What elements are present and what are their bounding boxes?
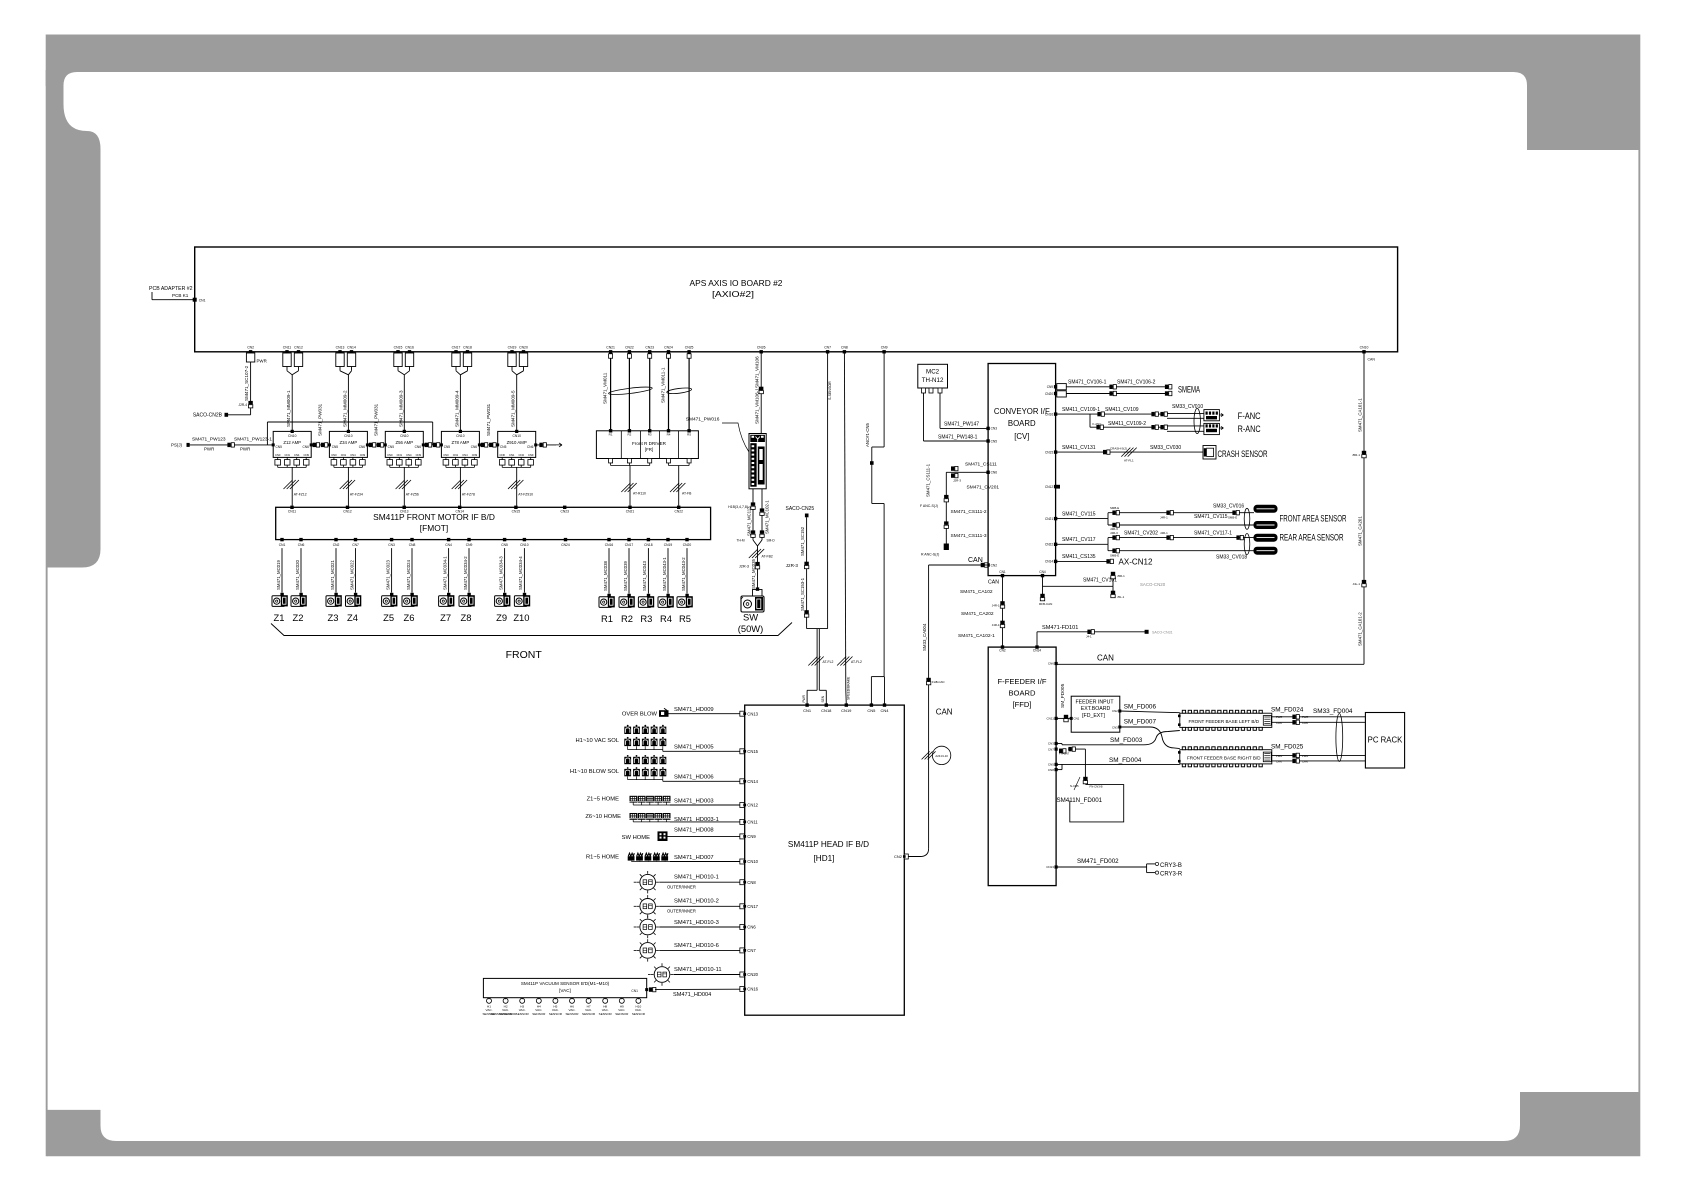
svg-text:SM471_MC024: SM471_MC024: [406, 560, 411, 590]
svg-text:H1B(3,4,7,8): H1B(3,4,7,8): [728, 505, 748, 509]
wire SM471_HD008 to CN9: [667, 835, 740, 837]
svg-text:CN10: CN10: [512, 434, 521, 438]
svg-text:CN12: CN12: [1045, 485, 1053, 489]
svg-text:CN1: CN1: [341, 453, 347, 457]
wire CN8 down to HD1 CN19: [844, 352, 845, 690]
svg-text:SENSOR: SENSOR: [516, 1012, 530, 1016]
svg-text:CN4: CN4: [445, 543, 452, 547]
svg-text:Z7: Z7: [440, 612, 451, 623]
svg-text:AT-R110: AT-R110: [633, 492, 646, 496]
svg-text:SM471_CA101-2: SM471_CA101-2: [1357, 612, 1362, 646]
svg-text:CN16: CN16: [747, 987, 758, 992]
cable bundle symbol front area: [1244, 508, 1250, 529]
svg-text:SM471_MC021: SM471_MC021: [330, 560, 335, 590]
svg-text:ANC#1-CN5: ANC#1-CN5: [865, 423, 870, 447]
HD1 top edge pins: [805, 703, 808, 706]
svg-text:CN12: CN12: [294, 346, 303, 350]
svg-text:SM471_MC043: SM471_MC043: [642, 561, 647, 591]
svg-text:Z10: Z10: [513, 612, 529, 623]
svg-text:CN0: CN0: [500, 453, 506, 457]
svg-text:CN1: CN1: [999, 570, 1006, 574]
svg-text:CN4: CN4: [462, 453, 468, 457]
svg-text:SM471_HD010-6: SM471_HD010-6: [674, 943, 719, 949]
connector block R-ANC: [1204, 423, 1220, 434]
svg-text:Z34 AMP: Z34 AMP: [340, 440, 358, 445]
wire CN7 down: [827, 352, 829, 629]
wire PCB K1 to CN1: [151, 292, 153, 300]
svg-text:CN2: CN2: [1112, 709, 1118, 713]
svg-text:PWR: PWR: [1302, 715, 1308, 719]
wire SM471_MC034-3 to motor Z9: [504, 548, 506, 593]
svg-text:CN9: CN9: [360, 453, 366, 457]
svg-text:CN7: CN7: [1048, 747, 1054, 751]
wire SM471_MC023 to motor Z5: [391, 548, 393, 593]
svg-text:SM471_CS111-2: SM471_CS111-2: [951, 509, 987, 515]
svg-text:CN12: CN12: [343, 510, 352, 514]
board APS AXIS IO BOARD #2 [AXIO#2]: [195, 247, 1398, 352]
svg-text:CN4: CN4: [294, 453, 300, 457]
svg-text:FH-CN7: FH-CN7: [1059, 752, 1070, 756]
svg-text:AT-FL2: AT-FL2: [851, 660, 862, 664]
svg-text:CN18: CN18: [821, 708, 832, 713]
svg-text:R2: R2: [621, 613, 633, 624]
connector J2R-3 on CS111 chain: [944, 495, 948, 498]
svg-text:[FMOT]: [FMOT]: [420, 523, 448, 533]
svg-text:R3: R3: [648, 433, 652, 437]
sensor block CRASH SENSOR: [1203, 446, 1216, 460]
svg-text:CN25: CN25: [685, 346, 694, 350]
svg-text:FRONT FEEDER BASE LEFT B/D: FRONT FEEDER BASE LEFT B/D: [1189, 719, 1260, 724]
svg-text:SENSOR: SENSOR: [532, 1012, 546, 1016]
driver box Z34 AMP: [329, 431, 367, 457]
lamp SM471_HD010-3: [640, 919, 656, 935]
svg-text:CN16: CN16: [1045, 412, 1053, 416]
svg-text:CN11: CN11: [283, 346, 292, 350]
svg-text:SM411P VACUUM SENSOR B'D(M1~M1: SM411P VACUUM SENSOR B'D(M1~M10): [521, 981, 610, 986]
svg-text:SM471_HD004: SM471_HD004: [673, 992, 711, 998]
svg-text:SM411P FRONT MOTOR IF B/D: SM411P FRONT MOTOR IF B/D: [373, 512, 495, 522]
svg-text:SM471_HD005: SM471_HD005: [674, 744, 714, 750]
svg-text:CN14: CN14: [747, 779, 758, 784]
svg-text:SACO-CN20: SACO-CN20: [1140, 582, 1166, 587]
svg-text:SM471_CV106-2: SM471_CV106-2: [1117, 379, 1156, 385]
wire CN9 down to HD1 CN5/CN4 with ANC#1-CN5 jog: [883, 352, 885, 447]
pin stub CN12: [1056, 485, 1060, 489]
svg-text:CAN: CAN: [1302, 760, 1308, 764]
svg-text:CN6: CN6: [1048, 662, 1054, 666]
svg-text:PCB K1: PCB K1: [172, 293, 189, 298]
svg-text:CAN: CAN: [1097, 654, 1114, 663]
svg-text:CN4: CN4: [1039, 570, 1046, 574]
wire SM471_MC043-2 to motor R5: [686, 548, 688, 594]
svg-text:CN9: CN9: [466, 543, 473, 547]
wire Z34 AMP to FMOT CN12 with hatch AT-FZ34: [347, 467, 349, 505]
svg-text:J4R-1: J4R-1: [992, 623, 1000, 627]
board SM411N_FD001 outline: [1070, 785, 1124, 822]
svg-text:SM471_SC107-2: SM471_SC107-2: [244, 365, 249, 401]
lamp SM471_HD010-1: [640, 874, 656, 890]
sensor bar front area 2: [1254, 522, 1277, 529]
svg-text:SM471_MM009-3: SM471_MM009-3: [398, 390, 403, 427]
svg-text:SM471_CV115: SM471_CV115: [1062, 511, 1096, 517]
svg-text:PWR: PWR: [1276, 715, 1282, 719]
motor Z9: [495, 596, 508, 607]
svg-text:CN8: CN8: [841, 346, 848, 350]
svg-text:CN5: CN5: [444, 445, 451, 449]
sensor bar rear area 2: [1254, 547, 1277, 554]
svg-text:CAN: CAN: [1302, 721, 1308, 725]
svg-text:CN17: CN17: [625, 543, 634, 547]
svg-text:CN6: CN6: [359, 445, 366, 449]
wire SM471_HD006 to CN14: [663, 780, 740, 782]
svg-text:J5R-1: J5R-1: [1352, 453, 1360, 457]
svg-text:PC RACK: PC RACK: [1368, 736, 1403, 745]
svg-text:CN9: CN9: [304, 453, 310, 457]
svg-text:Z6: Z6: [404, 612, 415, 623]
svg-text:SM471_CA102: SM471_CA102: [960, 589, 993, 595]
svg-text:J4L-1: J4L-1: [1352, 582, 1360, 586]
svg-text:CN1: CN1: [285, 453, 291, 457]
svg-text:CN6: CN6: [471, 445, 478, 449]
board FEEDER INPUT EXT.BOARD [FD_EXT]: [1071, 696, 1120, 732]
svg-text:F ANC-S(J): F ANC-S(J): [920, 504, 938, 508]
svg-text:[FR]: [FR]: [645, 447, 653, 452]
wire SM471_CV101 from CV CN4: [1043, 585, 1114, 587]
svg-text:PWR: PWR: [257, 359, 267, 364]
svg-text:CN3: CN3: [1048, 742, 1054, 746]
svg-text:CN24: CN24: [561, 543, 570, 547]
wire SM471_MC034-2 to motor Z8: [468, 548, 470, 593]
svg-text:AT-FZ12: AT-FZ12: [294, 493, 307, 497]
svg-text:CN1: CN1: [803, 708, 812, 713]
svg-text:CN22: CN22: [674, 510, 683, 514]
wire SM471_HD010-11 to CN20: [674, 974, 740, 976]
svg-text:CN22: CN22: [1045, 543, 1053, 547]
svg-text:CN20: CN20: [1045, 392, 1053, 396]
svg-text:CAN: CAN: [1276, 760, 1282, 764]
svg-text:SM471_PW147: SM471_PW147: [944, 422, 979, 428]
svg-text:Z1~5 HOME: Z1~5 HOME: [587, 797, 620, 803]
svg-text:SM471_HD008: SM471_HD008: [674, 827, 714, 833]
svg-text:SM471_HD006: SM471_HD006: [674, 774, 714, 780]
wire SM_FD004 from FFD CN5/CN8: [1056, 763, 1180, 765]
svg-text:CN15: CN15: [512, 510, 521, 514]
wire SM471_MC039 to motor R2: [628, 548, 630, 594]
board F-FEEDER I/F BOARD [FFD]: [988, 647, 1056, 886]
svg-text:CN17: CN17: [747, 904, 758, 909]
svg-text:CN20: CN20: [683, 543, 692, 547]
connector on CN26 wire: [759, 387, 763, 390]
svg-text:SM471_CV117-1: SM471_CV117-1: [1194, 531, 1232, 537]
lamp SM471_HD010-11: [654, 967, 670, 983]
svg-text:SM471_CV115: SM471_CV115: [1194, 514, 1228, 520]
wire SM471_CS111 chain into CN6: [946, 471, 988, 473]
svg-text:R5: R5: [687, 433, 691, 437]
svg-text:SM411_CV131: SM411_CV131: [1062, 445, 1096, 451]
svg-text:AT-FB2: AT-FB2: [762, 555, 773, 559]
svg-text:CN8: CN8: [1048, 768, 1054, 772]
wires below SW driver: [752, 489, 754, 540]
svg-text:SM471_MM009-5: SM471_MM009-5: [511, 390, 516, 427]
sensor bar rear area 1: [1254, 534, 1277, 541]
svg-text:J4R-1: J4R-1: [992, 603, 1000, 607]
svg-text:PWR: PWR: [240, 447, 250, 452]
wire Z910 AMP to FMOT CN15 with hatch AT-FZ910: [516, 467, 518, 505]
svg-text:CN18: CN18: [644, 543, 653, 547]
svg-text:SM471_PW031: SM471_PW031: [374, 403, 379, 436]
svg-text:SENSOR: SENSOR: [565, 1012, 579, 1016]
vacuum sensor pins H1-H10: [488, 998, 490, 1000]
svg-text:Z4: Z4: [347, 612, 358, 623]
svg-text:Z56 AMP: Z56 AMP: [395, 440, 413, 445]
wire SM471_PW147 to CV CN3: [939, 393, 941, 428]
motor R1: [599, 597, 612, 608]
svg-text:CN6: CN6: [527, 445, 534, 449]
svg-text:CN16: CN16: [605, 543, 614, 547]
svg-text:J4R-3: J4R-3: [1110, 531, 1118, 535]
connector stubs CN17/CN18 and wire SM471_MM009-4 to Z78 AMP: [452, 353, 460, 367]
svg-text:SPEED/BRAKE: SPEED/BRAKE: [847, 676, 851, 700]
svg-text:CN14: CN14: [455, 510, 464, 514]
svg-text:SM471_CA202: SM471_CA202: [961, 611, 994, 617]
svg-text:(50W): (50W): [738, 623, 764, 634]
svg-text:CN10: CN10: [1360, 346, 1369, 350]
svg-text:Z5: Z5: [383, 612, 394, 623]
svg-text:SM411P HEAD IF B/D: SM411P HEAD IF B/D: [788, 840, 869, 849]
svg-text:SM471_MC023: SM471_MC023: [385, 560, 390, 590]
svg-text:CN0: CN0: [387, 453, 393, 457]
HD1 right edge pin CN2: [904, 854, 908, 859]
svg-text:CN13: CN13: [747, 711, 758, 716]
HD1 left edge pins: [740, 711, 745, 716]
page frame top bar and top-right block (gray): [46, 35, 1641, 151]
wire SM471_MC019 to motor Z1: [281, 548, 283, 593]
svg-text:AT-FZ78: AT-FZ78: [462, 493, 475, 497]
svg-text:FRONT AREA SENSOR: FRONT AREA SENSOR: [1280, 514, 1347, 524]
svg-text:F-ANC: F-ANC: [1238, 411, 1261, 421]
svg-text:CN12: CN12: [747, 803, 758, 808]
svg-text:SM471_MC043-2: SM471_MC043-2: [681, 557, 686, 591]
svg-text:SM471_MM009-2: SM471_MM009-2: [342, 390, 347, 427]
svg-text:SM471_HD009: SM471_HD009: [674, 707, 714, 713]
page frame right thin line: [1638, 150, 1640, 1092]
svg-text:SM_FD006: SM_FD006: [1124, 704, 1157, 711]
svg-text:CN13: CN13: [336, 346, 345, 350]
svg-text:CN1: CN1: [279, 543, 286, 547]
wire FFD CN7 branch down to FD001: [1068, 748, 1085, 750]
wire CN26 SM471_VM106: [760, 352, 762, 434]
svg-text:Z78 AMP: Z78 AMP: [452, 440, 470, 445]
svg-text:[HD1]: [HD1]: [814, 854, 835, 863]
motor R3: [638, 597, 651, 608]
svg-text:J4-1: J4-1: [1086, 634, 1092, 638]
svg-text:CN13: CN13: [400, 510, 409, 514]
svg-text:SM471_HD010-2: SM471_HD010-2: [674, 899, 719, 905]
svg-text:J2R-3: J2R-3: [786, 563, 799, 568]
connector J4L-1 on CAN drop: [1362, 580, 1366, 583]
svg-text:SM471_CS111-1: SM471_CS111-1: [926, 463, 931, 497]
svg-text:CN17: CN17: [452, 346, 461, 350]
FMOT bottom edge pins: [280, 538, 283, 541]
svg-text:SM33_CA004: SM33_CA004: [922, 623, 927, 651]
svg-text:CN1: CN1: [509, 453, 515, 457]
svg-text:SM33_CV030: SM33_CV030: [1150, 445, 1181, 451]
circled hatch A2F-FL10: [922, 751, 930, 759]
svg-text:CN1: CN1: [397, 453, 403, 457]
svg-text:SM471_MC043-1: SM471_MC043-1: [662, 557, 667, 591]
svg-text:CN2: CN2: [991, 563, 998, 567]
svg-text:SM471_HD010-3: SM471_HD010-3: [674, 920, 719, 926]
cable bundle symbol ANC: [1194, 408, 1200, 433]
svg-text:CN3: CN3: [991, 427, 998, 431]
svg-text:J2R-4: J2R-4: [238, 403, 247, 407]
cable bundle symbol rear area: [1244, 534, 1250, 555]
wire SM471_CV117 to rear area sensor: [1056, 543, 1108, 545]
svg-text:Z9: Z9: [496, 612, 507, 623]
svg-text:SM471_MC102-1: SM471_MC102-1: [765, 500, 770, 534]
svg-text:SM_FD025: SM_FD025: [1271, 743, 1304, 750]
svg-text:H1~10 BLOW SOL: H1~10 BLOW SOL: [570, 769, 620, 775]
wire SM471_HD005 to CN15: [663, 750, 740, 752]
wire SM471_HD010-6 to CN7: [659, 949, 740, 951]
page frame bottom bar with corner blocks (gray): [47, 1092, 1641, 1156]
svg-text:SM471_MC020: SM471_MC020: [295, 560, 300, 590]
svg-text:CN6: CN6: [991, 471, 998, 475]
FMOT top edge pins: [290, 506, 293, 509]
svg-text:Z8: Z8: [461, 612, 472, 623]
svg-text:CN4: CN4: [350, 453, 356, 457]
cable bundle symbol over CN24-CN25: [667, 387, 692, 395]
svg-text:CAN: CAN: [1368, 358, 1376, 362]
svg-text:CRASH SENSOR: CRASH SENSOR: [1218, 449, 1268, 459]
svg-text:SM471_MC022: SM471_MC022: [349, 560, 354, 590]
CV bottom edge pins: [1001, 574, 1004, 577]
motor Z2: [291, 596, 304, 607]
motor Z1: [272, 596, 285, 607]
svg-text:CN11: CN11: [288, 510, 296, 514]
svg-text:TH-M: TH-M: [737, 539, 745, 543]
svg-text:CN5: CN5: [1048, 763, 1054, 767]
svg-text:FEEDER INPUT: FEEDER INPUT: [1075, 699, 1114, 705]
svg-text:SM33_CV018: SM33_CV018: [1216, 555, 1247, 561]
svg-text:CN10: CN10: [344, 434, 353, 438]
svg-text:CN6: CN6: [298, 543, 305, 547]
svg-text:CN6: CN6: [303, 445, 310, 449]
svg-text:[AXIO#2]: [AXIO#2]: [712, 289, 754, 299]
svg-text:CN15: CN15: [394, 346, 403, 350]
svg-text:[FFD]: [FFD]: [1013, 700, 1032, 709]
wire SM471_MC034-4 to motor Z10: [523, 548, 525, 593]
svg-text:CONVEYOR I/F: CONVEYOR I/F: [994, 407, 1050, 416]
svg-text:Z2: Z2: [293, 612, 304, 623]
connector block FRONT FEEDER BASE RIGHT B/D: [1180, 750, 1272, 764]
svg-text:FN-CN3-B: FN-CN3-B: [1090, 785, 1103, 789]
svg-text:SM471_PW031: SM471_PW031: [486, 403, 491, 436]
wire SM471_PW148-1 to CV CN5: [923, 393, 925, 441]
svg-text:SM471_SC153-1: SM471_SC153-1: [800, 577, 805, 611]
svg-text:RFB-CAN: RFB-CAN: [1039, 602, 1052, 606]
svg-text:SENSOR: SENSOR: [599, 1012, 613, 1016]
wire CAN horizontal to FFD CN6: [1056, 663, 1364, 665]
driver box Z56 AMP: [385, 431, 423, 457]
svg-text:CN0: CN0: [331, 453, 337, 457]
svg-text:J2R-3: J2R-3: [739, 564, 749, 568]
wire SM471_MC022 to motor Z4: [355, 548, 357, 593]
svg-text:CN5: CN5: [867, 708, 876, 713]
svg-text:[CV]: [CV]: [1014, 432, 1029, 441]
svg-text:CN1: CN1: [453, 453, 459, 457]
svg-text:SENSOR: SENSOR: [615, 1012, 629, 1016]
svg-text:CN10: CN10: [747, 859, 758, 864]
svg-text:SM471_HD003: SM471_HD003: [674, 799, 714, 805]
wire SM471_CV115 to front area sensor: [1056, 518, 1108, 520]
svg-text:CN26: CN26: [757, 346, 766, 350]
svg-text:PS(J): PS(J): [171, 442, 183, 447]
svg-text:CN21: CN21: [626, 510, 635, 514]
svg-text:CN7: CN7: [824, 346, 831, 350]
svg-text:CN19: CN19: [508, 346, 517, 350]
wire CAN from CV CN2 to HD1 CN2: [981, 563, 984, 567]
svg-text:PWR: PWR: [802, 694, 806, 702]
svg-text:A2F-FL10: A2F-FL10: [935, 754, 948, 758]
svg-text:CN9: CN9: [881, 346, 888, 350]
svg-text:CN10: CN10: [456, 434, 465, 438]
svg-text:CAN: CAN: [988, 580, 999, 586]
svg-text:CN6: CN6: [747, 925, 756, 930]
component SW driver terminal strip: [749, 434, 766, 489]
box PC RACK: [1365, 713, 1404, 769]
svg-text:CN5: CN5: [500, 445, 507, 449]
svg-text:CN11: CN11: [747, 820, 758, 825]
svg-text:SM471_CV201: SM471_CV201: [967, 484, 1000, 490]
wire SM471_HD003-1 to CN11: [670, 821, 740, 823]
svg-text:R ANC-S(J): R ANC-S(J): [921, 553, 939, 557]
motor Z10: [514, 596, 527, 607]
svg-text:SENSOR: SENSOR: [503, 1012, 517, 1016]
svg-text:CN0: CN0: [443, 453, 449, 457]
svg-text:SM471_MC019: SM471_MC019: [276, 560, 281, 590]
svg-text:SMB-E: SMB-E: [1110, 506, 1119, 510]
svg-text:CN8: CN8: [409, 543, 416, 547]
svg-text:SM471_HD010-1: SM471_HD010-1: [674, 875, 719, 881]
svg-text:AX-CN12: AX-CN12: [1119, 557, 1154, 566]
wire CN4 stub with RFB-CAN connector: [1042, 576, 1044, 600]
svg-text:SENSOR: SENSOR: [582, 1012, 596, 1016]
svg-text:[VAC]: [VAC]: [559, 988, 571, 993]
svg-text:BOARD: BOARD: [1008, 689, 1036, 698]
svg-text:SM471_VM011: SM471_VM011: [603, 372, 608, 404]
wire SM471_MC024 to motor Z6: [411, 548, 413, 593]
wire SM471_HD010-1 to CN8: [659, 881, 740, 883]
svg-text:SACO-CN31: SACO-CN31: [1152, 630, 1173, 634]
svg-text:CN2: CN2: [999, 649, 1006, 653]
svg-text:J4R-1: J4R-1: [1160, 515, 1168, 519]
svg-text:SMB-E: SMB-E: [1228, 515, 1237, 519]
motor SW (50W): [753, 590, 763, 597]
svg-text:J2R-3: J2R-3: [953, 479, 961, 483]
driver box Z78 AMP: [441, 431, 479, 457]
wire Z56 AMP to FMOT CN13 with hatch AT-FZ56: [403, 467, 405, 505]
sensor bar front area 1: [1254, 505, 1277, 512]
svg-text:SM_FD024: SM_FD024: [1271, 707, 1304, 714]
motor R5: [677, 597, 690, 608]
svg-text:CN23: CN23: [560, 510, 569, 514]
svg-text:R1: R1: [601, 613, 613, 624]
svg-text:PCB ADAPTER #2: PCB ADAPTER #2: [149, 286, 193, 292]
svg-text:SM471_VM106-1: SM471_VM106-1: [755, 388, 760, 424]
svg-text:CN9: CN9: [528, 453, 534, 457]
motor Z3: [326, 596, 339, 607]
